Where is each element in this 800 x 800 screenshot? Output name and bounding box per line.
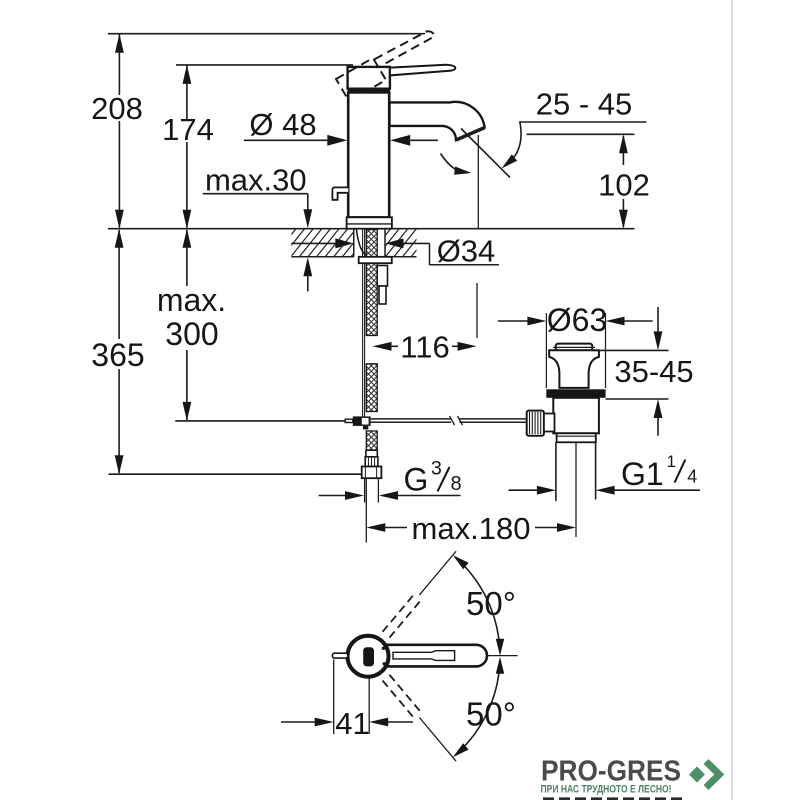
dim dia48 right arrow <box>390 135 410 146</box>
linkage bar left tip <box>345 419 353 422</box>
hose fitting step 2 <box>379 286 386 304</box>
dim 365 bottom reference line <box>109 473 361 475</box>
dim 116 line right <box>452 345 458 347</box>
dim dia63 ext left <box>545 313 547 388</box>
drain lower body <box>553 398 599 434</box>
dim 208 arrow down <box>115 210 124 229</box>
dim 35-45 lower line <box>657 417 659 436</box>
dim G114 left arrow <box>537 486 556 495</box>
linkage rod connector block <box>353 416 371 426</box>
water stream line <box>461 129 510 178</box>
flex hose band 3 <box>366 431 377 450</box>
hose in hole <box>366 230 377 257</box>
counter bottom line left <box>291 256 353 258</box>
counter hatching <box>264 228 451 258</box>
dim max300 line <box>186 230 188 286</box>
dim max180 ext faucet <box>365 479 367 543</box>
dim max300 arrow down <box>183 402 192 421</box>
svg-text:Ø34: Ø34 <box>437 234 496 269</box>
dim 35-45 top reference <box>592 349 668 351</box>
dim dia34 leader drop <box>429 243 431 264</box>
dim max180 line right <box>535 527 558 529</box>
linkage bar break marks <box>450 416 455 425</box>
hose bend in hole <box>357 230 367 256</box>
dim 365 arrow up <box>115 229 124 248</box>
dim 41 ext right <box>368 678 370 734</box>
svg-text:4: 4 <box>687 467 697 487</box>
dim 41 left arrow <box>315 718 334 727</box>
top view 50deg axis upper <box>419 551 456 595</box>
dim dia34 left line <box>291 242 336 244</box>
dim 25-45 underline <box>519 121 647 123</box>
dim G38 left arrow <box>345 491 364 500</box>
pop-up rod <box>362 263 364 416</box>
top view body circle <box>348 636 389 677</box>
svg-text:8: 8 <box>451 473 462 495</box>
svg-text:208: 208 <box>91 91 143 126</box>
angle arc lower <box>458 663 500 753</box>
top view dashed handle upper <box>389 598 422 638</box>
dim 35-45 upper line <box>657 307 659 332</box>
dim 174 line <box>186 65 188 119</box>
dim 102 arrow down <box>619 210 628 229</box>
flex hose band 2 <box>366 364 377 412</box>
dim dia63 left line <box>498 320 528 322</box>
svg-text:41: 41 <box>335 706 369 741</box>
mounting hole right edge <box>384 229 386 257</box>
dim max180 arrow left <box>366 523 385 532</box>
logo chevron <box>706 762 719 788</box>
mounting hole left edge <box>353 229 355 257</box>
faucet lever solid <box>390 65 455 76</box>
angle arc upper arrow high <box>453 555 469 569</box>
hose fitting step 1 <box>377 266 387 287</box>
dim dia63 ext right <box>605 313 607 388</box>
svg-text:102: 102 <box>598 168 650 203</box>
angle arc lower arrow high <box>496 657 504 674</box>
drain knurled knob <box>527 411 544 436</box>
drain upper funnel <box>549 350 599 388</box>
dim 35-45 arrow down <box>654 331 663 350</box>
svg-text:50°: 50° <box>466 585 516 622</box>
dim max180 arrow right <box>557 523 576 532</box>
dim max30 leader drop <box>307 194 309 211</box>
svg-text:max.30: max.30 <box>205 163 307 198</box>
dim 102 line <box>622 136 624 165</box>
svg-text:Ø 48: Ø 48 <box>249 107 316 142</box>
dim 116 arrow right <box>458 342 477 351</box>
dim 208 arrow up <box>115 34 124 53</box>
top view cartridge slot <box>363 647 374 666</box>
hose end collar <box>366 450 377 457</box>
angle arc upper <box>458 560 500 650</box>
dim G38 left line <box>319 495 346 497</box>
dim max300 bottom reference line <box>175 420 345 422</box>
drain seal flange <box>546 389 605 398</box>
dim dia63 right arrow <box>606 317 625 326</box>
dim dia63 left arrow <box>527 317 546 326</box>
dim dia34 underline <box>430 264 500 266</box>
svg-text:max.: max. <box>157 282 226 318</box>
dim 41 ext left <box>333 660 335 735</box>
dim 116 arrow left <box>373 342 392 351</box>
angle arc upper arrow low <box>496 639 504 656</box>
dim G114 left line <box>509 489 538 491</box>
dim G114 right line <box>614 489 700 491</box>
pop-up lever knob <box>332 187 348 199</box>
faucet head dashed (raised) <box>336 58 386 101</box>
faucet base <box>347 217 392 228</box>
dim max180 ext drain <box>575 429 577 537</box>
spout aerator face <box>456 128 485 140</box>
dim 174 top reference line <box>176 64 353 66</box>
drain ring nut <box>557 433 596 442</box>
top view rod stub <box>332 653 347 658</box>
svg-text:365: 365 <box>91 337 144 373</box>
top view dots <box>382 647 385 650</box>
bottom cropped text <box>543 797 683 800</box>
svg-text:174: 174 <box>162 112 214 147</box>
dim max30 underline <box>203 193 308 195</box>
dim max30 lower tail <box>307 275 309 292</box>
linkage bar segment A <box>371 418 451 420</box>
dim 41 left line <box>281 721 316 723</box>
dim dia34 right line <box>403 242 430 244</box>
svg-text:116: 116 <box>400 330 449 365</box>
svg-text:3: 3 <box>431 458 442 480</box>
dim 25-45 curved arrow <box>502 154 518 168</box>
dim dia48 left arrow <box>327 135 347 146</box>
dim max180 line left <box>385 527 408 529</box>
spout swivel arc <box>441 154 465 173</box>
dim 41 right line <box>388 721 414 723</box>
dim 208 line <box>118 34 120 95</box>
top view dashed handle lower <box>383 681 416 721</box>
spout swivel arrow <box>454 167 471 175</box>
dim dia48 right leader <box>408 139 438 141</box>
faucet spout <box>390 102 485 140</box>
G38 pipe <box>364 478 366 502</box>
svg-text:Ø63: Ø63 <box>547 302 607 338</box>
svg-text:G: G <box>404 462 429 498</box>
stream axis line <box>477 135 479 228</box>
svg-text:35-45: 35-45 <box>614 354 693 389</box>
dim G38 right line <box>398 495 461 497</box>
drain knob stem <box>544 414 555 432</box>
svg-text:1: 1 <box>667 452 676 471</box>
dim 174 arrow down <box>183 210 192 229</box>
linkage bar segment B <box>460 418 527 420</box>
dim 208 top reference line <box>108 33 425 35</box>
svg-text:ПРИ НАС ТРУДНОТО Е ЛЕСНО!: ПРИ НАС ТРУДНОТО Е ЛЕСНО! <box>541 783 672 795</box>
dim dia34 right arrow <box>385 238 403 248</box>
hose nut G38 <box>362 467 382 479</box>
logo diamond <box>688 765 706 783</box>
faucet lever dashed (raised) <box>375 31 435 65</box>
dim 102 arrow up <box>619 134 628 153</box>
faucet handle head <box>348 67 390 89</box>
dim 35-45 arrow up <box>654 399 663 418</box>
dim 116 line left <box>391 345 398 347</box>
hose end ribbed <box>365 457 378 467</box>
dim dia34 left arrow <box>335 238 353 248</box>
dim G38 right arrow <box>379 491 398 500</box>
top view centerline <box>487 655 518 657</box>
dim max30 arrow up <box>303 257 312 276</box>
drain tailpipe <box>555 442 557 501</box>
svg-text:25 - 45: 25 - 45 <box>536 87 633 122</box>
top view 50deg axis lower <box>419 717 456 761</box>
page divider line <box>731 0 733 800</box>
dim 35-45 bottom reference <box>606 398 669 400</box>
dim 365 arrow down <box>115 455 124 474</box>
faucet body <box>348 92 389 217</box>
dim max300 arrow up <box>183 229 192 248</box>
pop-up rod upper <box>362 229 364 257</box>
svg-text:50°: 50° <box>466 696 516 733</box>
counter bottom line right <box>385 256 417 258</box>
dim G114 right arrow <box>596 486 615 495</box>
drain cap <box>556 344 593 351</box>
dim dia48 left leader <box>244 139 330 141</box>
svg-text:max.180: max.180 <box>412 511 531 546</box>
dim 174 arrow up <box>183 65 192 84</box>
stream axis below counter <box>476 283 478 338</box>
dim 25-45 curved leader <box>507 123 522 165</box>
dim dia63 right line <box>624 320 653 322</box>
faucet cartridge collar <box>348 88 390 92</box>
svg-text:G1: G1 <box>621 456 664 492</box>
dim 365 line <box>118 230 120 339</box>
svg-text:300: 300 <box>165 316 218 352</box>
dim 41 right arrow <box>369 718 388 727</box>
mounting nut <box>359 257 392 263</box>
flex hose band 1 <box>366 263 377 335</box>
dim max30 arrow down <box>303 209 312 228</box>
top view handle slot <box>393 651 455 661</box>
angle arc lower arrow low <box>453 743 469 757</box>
top view handle <box>378 645 487 667</box>
counter top line <box>108 228 635 230</box>
dim 102 top reference line <box>527 133 635 135</box>
